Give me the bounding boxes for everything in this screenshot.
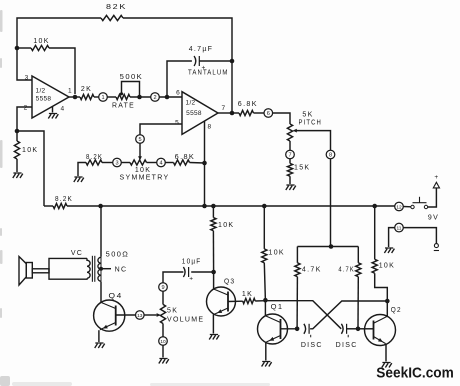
svg-text:SYMMETRY: SYMMETRY [120, 175, 170, 182]
svg-text:10K: 10K [218, 222, 234, 229]
wire cap branch up [167, 61, 192, 97]
svg-text:DISC: DISC [336, 342, 358, 349]
svg-text:10K: 10K [135, 167, 151, 174]
svg-text:1K: 1K [242, 291, 253, 298]
svg-text:1: 1 [101, 95, 104, 101]
wire node2 to U1B pin6 [159, 96, 182, 98]
svg-text:9: 9 [161, 285, 164, 291]
resistor 1K [228, 300, 243, 302]
potentiometer 5K PITCH [287, 124, 292, 141]
potentiometer 10K SYMMETRY [121, 162, 130, 164]
wire Q4 base to node13 [116, 314, 136, 316]
wire pin2 U1A to bias node [17, 107, 32, 131]
speaker driver [26, 263, 32, 279]
wire Q1 collector [264, 300, 266, 316]
capacitor DISC right [341, 324, 343, 334]
wire node13 to volume wiper [144, 314, 156, 316]
svg-text:12: 12 [396, 205, 402, 211]
svg-text:5K: 5K [167, 308, 178, 315]
ground U1A pin4 [48, 114, 58, 119]
node 10 [159, 337, 168, 346]
wire Q2 emitter to ground [385, 344, 387, 362]
svg-text:Q4: Q4 [109, 293, 123, 300]
rate pot bracket [122, 82, 140, 98]
svg-text:10K: 10K [379, 263, 395, 270]
wire 10uF right [191, 271, 213, 273]
wire Q2 base [358, 328, 374, 330]
op-amp U1B 1/2 5558 [182, 92, 218, 135]
svg-text:5558: 5558 [36, 96, 52, 103]
node 11 [395, 223, 404, 232]
svg-text:8: 8 [329, 153, 332, 159]
svg-text:10K: 10K [269, 250, 285, 257]
resistor 4.7K left [296, 247, 298, 263]
op-amp U1A 1/2 5558 [32, 76, 69, 118]
svg-text:SeekIC.com: SeekIC.com [376, 366, 454, 382]
node junction left rail to 10K feedback [15, 46, 20, 51]
svg-text:10K: 10K [33, 38, 49, 45]
svg-text:4: 4 [159, 161, 162, 167]
node 7 [286, 150, 295, 159]
node junction transformer supply [98, 204, 103, 209]
speaker rod [32, 269, 49, 273]
switch S1 contact left [411, 205, 414, 208]
resistor 15K [289, 159, 291, 164]
wire gnd to 8.2K [78, 163, 86, 177]
svg-text:8.2K: 8.2K [86, 154, 103, 161]
voice coil box VC (wavy right edge = primary winding) [49, 258, 90, 279]
svg-text:6: 6 [176, 90, 180, 97]
wire U1B pin5 [140, 124, 182, 135]
svg-text:Q1: Q1 [271, 304, 284, 311]
wire supply rail [101, 205, 395, 207]
wire cross B left cap to Q2 collector [310, 301, 387, 329]
resistor 10K (feedback U1A) [31, 45, 49, 50]
wire node5 to symmetry wiper [139, 143, 141, 158]
svg-text:5: 5 [175, 120, 179, 127]
node junction pin2 bias [15, 129, 20, 134]
wire Q3 collector [213, 272, 215, 289]
svg-text:500K: 500K [120, 74, 144, 81]
node junction Q1 collector [263, 298, 268, 303]
resistor 8.2K symmetry [86, 160, 102, 165]
transistor Q2 [365, 315, 396, 346]
node junction U1A output [73, 95, 78, 100]
resistor 6.8K output [232, 112, 239, 114]
wire node10 to ground [162, 345, 164, 357]
node junction Q2 base [356, 327, 361, 332]
svg-text:5: 5 [138, 137, 141, 143]
wire secondary bottom to Q4 [100, 282, 102, 302]
transistor Q3 [207, 287, 236, 316]
resistor 8.2K supply [44, 205, 53, 207]
wire 10K feedback to output [49, 48, 75, 94]
svg-text:7: 7 [222, 105, 226, 112]
svg-text:10µF: 10µF [182, 259, 202, 266]
svg-text:1/2: 1/2 [36, 88, 46, 95]
svg-text:8.2K: 8.2K [55, 196, 73, 203]
svg-text:+: + [434, 174, 438, 181]
node junction pin8 6.8K [202, 161, 207, 166]
ground volume [159, 359, 169, 364]
ground node11 [384, 248, 394, 253]
resistor 10K mid [212, 206, 214, 218]
svg-text:RATE: RATE [112, 102, 135, 109]
resistor 6.8K symmetry [165, 162, 173, 164]
symmetry wiper arrow [138, 156, 142, 160]
transformer core [91, 256, 93, 282]
wire pin8 node down to supply rail [204, 163, 206, 206]
node 2 [151, 93, 160, 102]
node junction U1B output [230, 111, 235, 116]
resistor 10K (bias to ground) [16, 131, 18, 141]
ground Q2 [382, 363, 392, 368]
node 3 [113, 158, 122, 167]
svg-text:Q3: Q3 [224, 278, 235, 285]
node 8 [326, 150, 335, 159]
wire cross A Q1 collector to right cap [265, 301, 341, 329]
node 5 [136, 135, 145, 144]
ground 10K bias [13, 173, 23, 178]
ground Q4 [95, 343, 105, 348]
node 13 [136, 311, 145, 320]
svg-text:1: 1 [68, 88, 72, 95]
wire Q1 emitter to ground [265, 342, 267, 360]
volume wiper arrow [157, 313, 161, 317]
svg-text:10: 10 [160, 339, 166, 345]
potentiometer 500K RATE [116, 94, 130, 99]
svg-text:4.7µF: 4.7µF [189, 46, 214, 53]
svg-text:4: 4 [61, 106, 65, 113]
svg-text:3: 3 [25, 75, 29, 82]
svg-text:+: + [189, 276, 193, 283]
node 12 [395, 202, 404, 211]
svg-text:6.8K: 6.8K [238, 101, 258, 108]
ground 15K [286, 185, 296, 190]
switch S1 lever [413, 202, 427, 204]
svg-text:500Ω: 500Ω [106, 252, 130, 259]
svg-text:10K: 10K [22, 147, 38, 154]
svg-text:11: 11 [397, 226, 402, 232]
scan artifact edge marks [0, 10, 270, 386]
wire secondary top to rail [100, 206, 102, 257]
node 9 [159, 283, 168, 292]
svg-text:VC: VC [71, 250, 83, 257]
svg-text:4.7K: 4.7K [338, 267, 354, 274]
node junction cap right [230, 59, 235, 64]
svg-text:DISC: DISC [301, 342, 323, 349]
resistor 2K [80, 94, 94, 99]
node junction Q2 collector [385, 299, 390, 304]
wire node11 to battery minus [403, 228, 436, 244]
pin 4 stub U1A [52, 106, 54, 112]
svg-text:TANTALUM: TANTALUM [188, 70, 229, 77]
node junction 10K 10uF Q3 [211, 270, 216, 275]
wire 10uF left to node9 [163, 272, 183, 283]
switch S1 contact right [424, 205, 427, 208]
node junction cap branch [165, 95, 170, 100]
node junction rate wiper [137, 95, 142, 100]
svg-text:15K: 15K [294, 165, 310, 172]
battery plus terminal [433, 182, 439, 188]
node junction Q1 base [295, 327, 300, 332]
wire node6 to pitch pot [273, 113, 290, 124]
svg-text:7: 7 [288, 153, 291, 159]
pitch wiper arrow [293, 129, 297, 133]
svg-text:5K: 5K [302, 112, 313, 119]
node 1 [99, 93, 108, 102]
svg-text:5558: 5558 [186, 110, 202, 117]
svg-text:NC: NC [115, 267, 128, 274]
wire bias node to 8.2K drop [17, 131, 44, 206]
transistor Q1 [258, 314, 288, 344]
svg-text:Q2: Q2 [391, 307, 402, 314]
wire cap to right vertical [199, 60, 232, 62]
wire 4.7K top bar [297, 246, 358, 248]
svg-text:2: 2 [153, 95, 156, 101]
node junction node8 447 bar [329, 244, 334, 249]
node 6 [264, 109, 273, 118]
resistor 10K Q2 load [374, 206, 376, 259]
svg-text:4.7K: 4.7K [302, 267, 322, 274]
svg-text:2K: 2K [81, 86, 92, 93]
wire Q1 base [281, 328, 298, 330]
svg-text:82K: 82K [106, 4, 127, 11]
wire right cap to Q2 base node [347, 328, 358, 330]
wire Q2 collector [386, 301, 388, 316]
wire switch to battery plus [428, 188, 437, 207]
wire top feedback rail from left rail to right vertical [17, 18, 101, 80]
wire Q4 emitter to ground [98, 330, 100, 342]
svg-text:6: 6 [267, 111, 270, 117]
resistor 10K Q1 load [263, 206, 265, 249]
wire U1B output [218, 112, 232, 114]
svg-text:1/2: 1/2 [186, 100, 196, 107]
svg-text:3: 3 [115, 161, 118, 167]
capacitor 10uF [183, 267, 185, 277]
node junction 10K mid rail [211, 204, 216, 209]
transformer center tap NC [99, 267, 103, 271]
wire node12 to switch [403, 206, 411, 208]
wire node11 to ground [389, 228, 395, 247]
resistor 82K (feedback) [101, 15, 123, 20]
battery minus terminal [434, 244, 438, 248]
transformer T1 secondary 500ohm [100, 257, 102, 283]
potentiometer 5K VOLUME [162, 291, 164, 304]
svg-text:13: 13 [137, 313, 143, 319]
wire U1B pin8 to rail [204, 121, 206, 163]
node junction pin8 rail [202, 204, 207, 209]
wire Q3 emitter to ground [212, 314, 214, 333]
wire node8 down to astable bases [330, 159, 332, 247]
svg-text:8: 8 [208, 124, 212, 131]
node junction 10K Q1 rail [262, 204, 267, 209]
speaker cone [19, 257, 26, 286]
node 4 [157, 158, 166, 167]
svg-text:VOLUME: VOLUME [167, 317, 204, 324]
ground Q3 [209, 335, 219, 340]
svg-text:9V: 9V [428, 215, 439, 222]
svg-text:PITCH: PITCH [299, 120, 322, 127]
ground 8.2K symmetry [74, 177, 84, 182]
svg-text:2: 2 [24, 105, 28, 112]
ground Q1 [262, 362, 272, 367]
resistor 4.7K right [357, 247, 359, 263]
capacitor DISC left [304, 324, 306, 334]
node junction 10K Q2 rail [372, 204, 377, 209]
svg-text:6.8K: 6.8K [175, 154, 196, 161]
wire node1 to rate pot [107, 96, 116, 98]
transistor Q4 [94, 300, 125, 331]
capacitor 4.7uF tantalum [194, 56, 196, 66]
